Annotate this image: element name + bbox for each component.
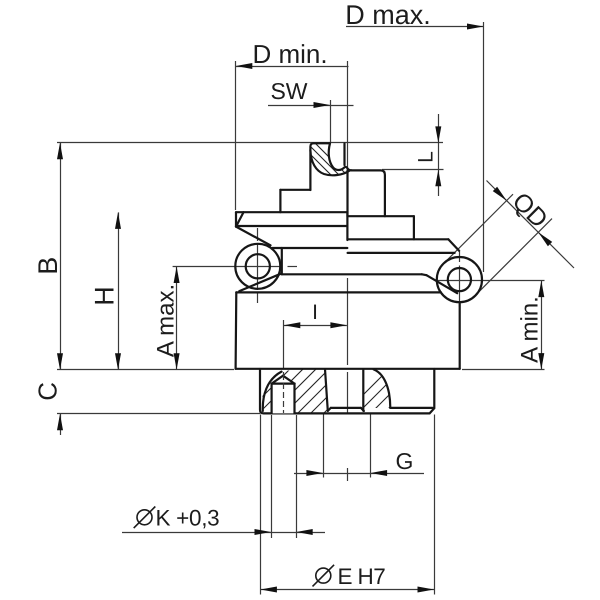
diameter symbol K	[137, 510, 152, 525]
right step top	[348, 215, 414, 217]
extension line bottom left (hex bottom)	[57, 369, 234, 371]
arrow QD lower	[538, 232, 552, 246]
dome right outer arc	[374, 369, 391, 408]
extension line A min bottom	[462, 369, 545, 371]
arrow B top	[57, 143, 63, 160]
svg-text:A min.: A min.	[517, 296, 544, 363]
diameter symbol E	[316, 568, 331, 583]
svg-text:K +0,3: K +0,3	[156, 506, 220, 531]
arrow E right	[418, 587, 435, 593]
svg-text:B: B	[33, 257, 63, 275]
arrowheads	[57, 24, 552, 593]
arrow D min	[236, 63, 253, 69]
extension lines G	[323, 415, 325, 478]
K hole cone	[272, 376, 295, 384]
dimension line E	[260, 589, 434, 591]
svg-text:L: L	[415, 151, 438, 163]
dimension line D max	[346, 26, 484, 28]
svg-text:I: I	[312, 301, 318, 324]
svg-text:G: G	[396, 448, 414, 474]
flange lower diagonal left	[239, 274, 280, 291]
release sleeve outer left edge + top	[310, 143, 330, 190]
right line y253	[348, 252, 455, 254]
diameter symbols	[134, 507, 334, 587]
extension line A max top (left roller centerline)	[173, 266, 281, 268]
arrow K left	[255, 529, 272, 535]
dimension line A max	[176, 267, 178, 370]
arrow SW	[314, 102, 331, 108]
cap left edge	[235, 212, 237, 226]
sleeve bottom flange	[280, 189, 310, 191]
arrow G right	[371, 470, 388, 476]
svg-text:SW: SW	[270, 78, 307, 104]
arrow B bottom	[57, 353, 63, 370]
main centerline	[347, 61, 349, 170]
dome right left edge	[362, 369, 364, 411]
arrow C bottom	[57, 414, 63, 431]
svg-text:H: H	[89, 286, 119, 306]
step on axis	[346, 212, 348, 240]
arrow A max top	[174, 267, 180, 284]
arrow K right	[296, 529, 313, 535]
sleeve bead outer bottom curve	[310, 150, 349, 175]
right collar left edge on axis	[346, 170, 348, 216]
K hole dashed axis	[283, 374, 285, 413]
arrow A min bottom	[538, 353, 544, 370]
right roller centerline vertical	[459, 252, 461, 262]
arrow A max bottom	[174, 353, 180, 370]
right roller inner	[448, 268, 471, 291]
left roller inner	[246, 254, 270, 278]
extension line L bottom (collar top level)	[382, 169, 444, 171]
right step line y239	[348, 238, 449, 240]
dimension line G	[294, 473, 424, 475]
dome left right edge	[325, 369, 328, 411]
K hole shoulder	[272, 383, 295, 385]
flange line y274	[282, 273, 422, 275]
sleeve bead inner curve	[329, 143, 352, 170]
arrow G left	[306, 470, 323, 476]
arrow I left	[284, 322, 301, 328]
svg-text:A max.: A max.	[153, 284, 180, 357]
left roller centerline vertical	[257, 228, 259, 241]
arrow E left	[260, 587, 277, 593]
extension line C bottom	[57, 413, 260, 415]
flange line y248	[272, 247, 347, 249]
svg-text:C: C	[33, 382, 63, 401]
recess chamfer left	[328, 408, 331, 411]
extension line top (B top / sleeve top / L top)	[57, 142, 443, 144]
hex left edge	[235, 292, 238, 368]
hex right edge	[459, 303, 461, 369]
dimension line K	[122, 532, 325, 534]
arrow H top	[115, 212, 121, 229]
flange step vertical	[281, 248, 283, 274]
extension line I left / K hole axis	[283, 320, 285, 369]
right collar top	[348, 170, 385, 216]
dimension line SW	[268, 105, 354, 107]
extension line D max right	[483, 22, 485, 272]
cap inner line	[236, 225, 347, 227]
extension line SW	[330, 100, 332, 142]
arrow A min top	[538, 281, 544, 298]
svg-text:D min.: D min.	[252, 39, 327, 69]
QD extension line B	[476, 219, 552, 295]
hex top	[236, 291, 441, 293]
bottom connector floor right	[390, 407, 432, 409]
part outline (thick)	[235, 143, 482, 413]
sleeve inner wall	[343, 144, 345, 166]
extension lines K	[271, 415, 273, 538]
flange upper diagonal left	[236, 227, 271, 246]
cap corner chamfer	[236, 212, 244, 226]
arrow QD upper	[493, 187, 507, 201]
left roller outer	[235, 244, 280, 289]
svg-text:E H7: E H7	[338, 564, 386, 589]
right bevel	[448, 239, 459, 251]
dimension line A min	[541, 281, 543, 370]
arrow I right	[330, 322, 347, 328]
dome left outer arc	[263, 372, 282, 411]
dimension line H	[118, 212, 120, 369]
dimension line D min	[236, 66, 349, 68]
right roller outer	[437, 257, 482, 302]
bottom connector left edge	[260, 369, 434, 413]
arrow D max	[467, 24, 484, 30]
QD dimension line	[487, 181, 575, 269]
arrow L bottom	[435, 170, 441, 187]
dimension line C tail	[60, 414, 62, 435]
dimension line L	[438, 114, 440, 196]
QD extension line A	[444, 194, 513, 263]
dimension line I	[284, 325, 347, 327]
K hole right wall	[293, 384, 295, 414]
svg-text:D max.: D max.	[345, 0, 431, 30]
wedge lower diagonal right	[427, 275, 458, 293]
section hatching: bottom connector left region	[233, 124, 464, 413]
arrow H bottom	[115, 353, 121, 370]
cap top left	[236, 211, 347, 213]
dimension line B	[60, 143, 62, 370]
extension line D min left	[235, 61, 237, 210]
recess floor	[331, 407, 361, 409]
K hole left wall	[271, 384, 273, 414]
recess chamfer right	[361, 408, 364, 411]
extension lines E	[260, 415, 262, 595]
arrow L top	[435, 126, 441, 142]
wedge tip right	[422, 273, 427, 276]
extension line A min top (right roller centerline)	[437, 280, 545, 282]
K hole pocket (masks hatch)	[272, 374, 295, 413]
hex bottom	[236, 368, 460, 370]
